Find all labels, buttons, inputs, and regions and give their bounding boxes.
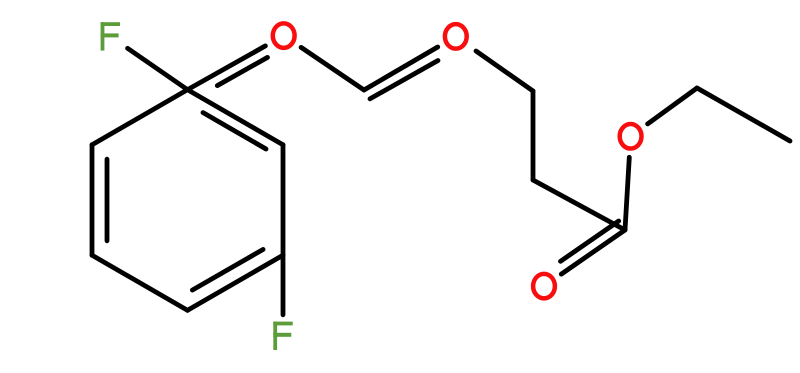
wire: double bond C8=O2 line a <box>364 47 438 90</box>
wire: ring aromatic inner line C1-C2 <box>203 113 266 149</box>
wire: ring edge C2-C3 <box>92 90 188 145</box>
wire: ring edge C5-C6 <box>188 255 284 310</box>
wire: bond C6-F2 <box>281 255 286 315</box>
wire: double bond C2=O1 line a <box>188 46 266 90</box>
wire: bond C2-F1 <box>128 48 188 89</box>
wire: ring aromatic inner line C5-C6 <box>192 249 263 290</box>
wire: ring edge C1-C2 <box>188 90 284 145</box>
node O3: oxygen label <box>620 124 642 149</box>
node O1: oxygen label <box>273 23 295 48</box>
node F1: fluorine label <box>101 22 120 50</box>
node O4: oxygen label <box>533 274 555 299</box>
wire: ring edge C4-C5 <box>92 255 188 310</box>
wire: bond Cm-Ce <box>533 180 625 230</box>
node O2: oxygen label <box>445 24 467 49</box>
wire: double bond Ce=O4 line b <box>561 221 619 261</box>
wire: double bond C8=O2 line b <box>370 61 438 99</box>
wire: double bond Ce=O4 line a <box>561 230 625 274</box>
wire: ring edge C6-C1 <box>281 145 286 255</box>
wire: bond O3-C11 <box>648 88 697 124</box>
wire: ring edge C3-C4 <box>90 145 95 255</box>
node F2: fluorine label <box>273 322 292 350</box>
wire: bond C11-C12 <box>697 88 790 141</box>
wire: double bond C2=O1 line b <box>217 57 267 85</box>
wire: bond Ce-O3 <box>625 157 629 230</box>
wire: bond C10-Cm <box>531 91 536 180</box>
wire: bond O2-C10 <box>476 51 533 91</box>
wire: ring aromatic inner line C3-C4 <box>105 159 110 241</box>
wire: bond O1-C8 <box>301 47 364 90</box>
